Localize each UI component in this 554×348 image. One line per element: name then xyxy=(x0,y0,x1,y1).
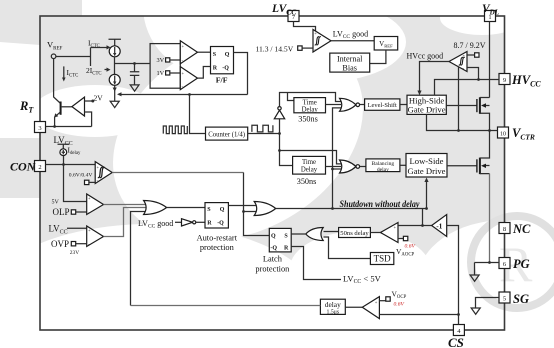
svg-text:+: + xyxy=(314,31,317,36)
junction CON-Idelay xyxy=(62,163,65,166)
transistor M1 high-side MOSFET xyxy=(446,97,489,130)
ground below cap xyxy=(130,85,139,91)
wire AOCP minus to terminal xyxy=(398,238,403,240)
wire shutdown up to NOR gates xyxy=(333,108,342,209)
node 8.7/9.2V terminal xyxy=(475,53,479,57)
wire LVCC to OVP comparator xyxy=(67,227,87,229)
node VREF terminal xyxy=(51,54,56,59)
wire TD1 out xyxy=(326,104,342,106)
svg-text:PG: PG xyxy=(513,257,530,271)
pin 8 NC xyxy=(499,223,510,234)
wire LVCC pin to comparator xyxy=(294,22,316,32)
wire level shift to HS drive xyxy=(400,104,407,106)
comparator AOCP xyxy=(380,223,398,243)
wire shutdown to LS drive with arrow xyxy=(426,181,428,209)
svg-text:8: 8 xyxy=(503,226,506,233)
pin 4 CS xyxy=(453,325,464,336)
comparator osc set 3V xyxy=(180,41,197,64)
svg-text:9: 9 xyxy=(503,77,506,84)
supply rail bar xyxy=(109,39,121,46)
wire shutdown line xyxy=(276,208,427,210)
svg-text:R: R xyxy=(284,245,289,251)
svg-text:0.6V: 0.6V xyxy=(394,302,405,308)
svg-text:3: 3 xyxy=(38,125,41,132)
svg-text:SG: SG xyxy=(513,292,529,306)
wire arrow to ICTC source xyxy=(91,47,107,49)
svg-text:-1: -1 xyxy=(436,222,442,231)
svg-text:HVcc good: HVcc good xyxy=(407,52,444,61)
current source ICTC xyxy=(109,46,120,57)
svg-text:Delay: Delay xyxy=(301,166,318,173)
svg-text:CON: CON xyxy=(10,160,37,174)
wire HVCC net xyxy=(435,80,500,96)
svg-text:Time: Time xyxy=(302,159,316,166)
node OVP terminal xyxy=(71,242,75,246)
wire LS source to PG xyxy=(489,174,491,263)
svg-text:Delay: Delay xyxy=(302,106,319,113)
svg-text:Gate Drive: Gate Drive xyxy=(408,166,446,176)
pin 3 RT xyxy=(35,122,46,133)
OR gate shutdown OR2 xyxy=(254,202,276,216)
wire counter out xyxy=(248,133,280,135)
wire OLP out to OR1 xyxy=(104,204,147,206)
wire TSD to OR input xyxy=(324,237,371,259)
node 3V terminal xyxy=(166,58,170,62)
svg-text:Latch: Latch xyxy=(263,255,283,264)
junction ref-VCTR xyxy=(457,129,460,132)
wire to OR2 lower input xyxy=(244,211,257,213)
wire RT xyxy=(46,126,92,128)
junction tap xyxy=(421,224,424,227)
junction counter node xyxy=(278,132,281,135)
current source 2ICTC xyxy=(109,74,120,85)
low side gate drive box xyxy=(406,154,447,178)
svg-text:OLP: OLP xyxy=(53,207,70,217)
NOR gate low side xyxy=(340,160,360,173)
wire CON down to OLP xyxy=(64,165,87,202)
wire CON xyxy=(46,164,96,166)
pin 9 HVCC xyxy=(499,74,510,85)
wire 3V to comparator xyxy=(170,59,181,61)
junction shutdown branch xyxy=(425,207,428,210)
wire FF Q to feedback and counter xyxy=(234,53,248,95)
wire balancing to LS drive xyxy=(400,164,406,166)
inverter osc phase xyxy=(274,107,284,119)
svg-text:+: + xyxy=(182,44,185,49)
svg-text:Internal: Internal xyxy=(337,55,363,64)
wire Idelay to CON xyxy=(63,156,65,165)
node 11.3/14.5V terminal xyxy=(298,46,302,50)
wire OCP minus to CS xyxy=(379,314,458,316)
pin 2 CON xyxy=(35,161,46,172)
svg-text:2: 2 xyxy=(38,164,41,171)
svg-text:F/F: F/F xyxy=(216,75,228,84)
node VAOCP terminal xyxy=(403,236,407,240)
wire up to inverter xyxy=(279,119,281,134)
wire label to inverter xyxy=(175,221,182,223)
current source Idelay xyxy=(60,149,67,156)
svg-text:1.5μs: 1.5μs xyxy=(326,309,339,315)
wire TD2 out xyxy=(326,166,342,168)
svg-text:protection: protection xyxy=(200,243,235,252)
comparator CON 0.6V/0.4V xyxy=(95,162,112,184)
svg-text:Low-Side: Low-Side xyxy=(410,156,444,166)
wire CON-disable down to latch Q xyxy=(244,173,270,236)
wire VREF to internal bias xyxy=(370,50,386,64)
junction cap tap xyxy=(133,62,136,65)
svg-text:50ns delay: 50ns delay xyxy=(340,230,369,237)
glyph lf square wave xyxy=(252,125,273,132)
wire 50ns to OR input xyxy=(324,231,339,233)
wire NOR1 to level shift xyxy=(360,104,365,106)
wire -1 input from CS xyxy=(447,226,459,325)
svg-text:350ns: 350ns xyxy=(298,114,318,123)
wire OR1 to auto-restart S xyxy=(167,207,205,209)
wire HVcc good output to HS drive xyxy=(420,62,450,93)
wire OR to latch S xyxy=(291,233,307,235)
svg-text:8.7 / 9.2V: 8.7 / 9.2V xyxy=(454,41,486,50)
svg-text:R: R xyxy=(207,221,212,227)
box internal bias xyxy=(330,53,370,72)
svg-text:Bias: Bias xyxy=(342,63,357,72)
svg-text:NC: NC xyxy=(512,222,531,236)
svg-text:1V: 1V xyxy=(157,70,165,77)
comparator LVCC good 11.3/14.5V xyxy=(313,30,331,53)
wire AOCP plus from -1 xyxy=(398,225,432,227)
wire OCP delayed to OR1 xyxy=(131,212,147,306)
inverter LVcc good xyxy=(182,219,196,226)
svg-text:Time: Time xyxy=(303,99,317,106)
OR gate protection OR1 xyxy=(144,201,167,215)
junction minus-HVcc xyxy=(477,78,480,81)
comparator osc reset 1V xyxy=(180,67,197,90)
svg-text:5: 5 xyxy=(503,296,506,303)
junction CS OCP xyxy=(457,313,460,316)
svg-text:-Q: -Q xyxy=(270,245,277,251)
ground SG xyxy=(471,308,480,314)
wire 1V to comparator xyxy=(170,72,181,74)
svg-text:+: + xyxy=(182,71,185,76)
svg-text:LVCC good: LVCC good xyxy=(333,29,368,40)
junction shutdown NOR2 xyxy=(331,168,334,171)
svg-text:2V: 2V xyxy=(94,94,104,103)
transistor M2 low-side MOSFET xyxy=(447,131,490,175)
svg-text:+: + xyxy=(88,196,91,201)
svg-text:-Q: -Q xyxy=(217,221,224,227)
outer border of IC block xyxy=(40,16,505,330)
svg-text:+: + xyxy=(375,299,378,304)
pin 6 PG xyxy=(499,258,510,269)
counter box xyxy=(206,127,248,140)
wire CON comp out xyxy=(112,172,243,174)
OR gate latch set (mirrored) xyxy=(306,228,323,241)
svg-text:LVCC < 5V: LVCC < 5V xyxy=(343,274,382,286)
wire base xyxy=(62,106,72,108)
junction bottom bypass xyxy=(278,149,281,152)
svg-text:Level-Shift: Level-Shift xyxy=(368,102,397,109)
flip-flop auto-restart protection xyxy=(205,203,228,228)
svg-text:R: R xyxy=(213,65,218,71)
junction LS source PG xyxy=(488,261,491,264)
wire bottom bypass xyxy=(280,151,342,164)
flip-flop latch protection xyxy=(269,228,291,252)
svg-text:+: + xyxy=(394,224,397,229)
ground PG xyxy=(470,275,479,281)
box 50ns delay xyxy=(339,228,371,238)
capacitor CT xyxy=(130,64,139,85)
wire set to FF S xyxy=(198,51,211,53)
svg-text:delay: delay xyxy=(325,300,341,309)
svg-text:0.6V: 0.6V xyxy=(405,243,416,249)
comparator OCP xyxy=(362,297,379,319)
wire OCP comp to delay box xyxy=(345,306,362,308)
wire VREF to mirror xyxy=(56,48,91,67)
wire VDL net xyxy=(489,22,491,98)
svg-text:10: 10 xyxy=(500,132,506,138)
svg-text:3V: 3V xyxy=(157,57,165,64)
box delay 1.5us xyxy=(320,299,345,315)
wire Q to OR2 xyxy=(228,205,256,207)
svg-text:-Q: -Q xyxy=(222,65,229,71)
comparator input polarity marks xyxy=(88,31,466,318)
svg-text:350ns: 350ns xyxy=(297,177,317,186)
junction emitter-RT xyxy=(53,125,56,128)
op-amp U1 (2V clamp) xyxy=(72,97,85,116)
svg-text:Q: Q xyxy=(271,233,276,239)
label Ictc down-arrow xyxy=(63,66,65,79)
pin 7 LVCC xyxy=(288,11,299,22)
wire FF Q feedback arrow xyxy=(119,94,248,96)
svg-text:Q: Q xyxy=(220,207,225,213)
junction HS source VCTR xyxy=(488,129,491,132)
wire shutdown tap to -1 output xyxy=(422,209,424,226)
wire mid node xyxy=(115,57,151,74)
pin 5 SG xyxy=(499,292,510,303)
svg-text:TSD: TSD xyxy=(374,254,392,264)
svg-text:5V: 5V xyxy=(52,200,60,206)
balancing delay box xyxy=(366,159,400,173)
wire OVP terminal to comparator xyxy=(76,243,87,245)
wire inverter to top branch xyxy=(280,93,342,107)
comparator OLP xyxy=(87,194,104,215)
junction shutdown line xyxy=(331,207,334,210)
pin 1 VDL xyxy=(485,11,496,22)
svg-text:Auto-restart: Auto-restart xyxy=(197,233,238,242)
junction CON-disable OR2 xyxy=(242,210,245,213)
NOR gate high side xyxy=(340,98,360,111)
wire down to counter xyxy=(190,95,206,134)
svg-text:23V: 23V xyxy=(70,250,79,256)
box TSD xyxy=(370,253,393,265)
svg-text:Shutdown without delay: Shutdown without delay xyxy=(340,199,421,209)
wire LVCC good to VREF box xyxy=(331,40,374,42)
box VREF xyxy=(374,37,398,51)
wire OCP plus to terminal xyxy=(379,300,385,302)
pin 10 VCTR xyxy=(498,127,509,138)
wire reset to FF R xyxy=(198,67,211,79)
wire comparator ref to VCTR xyxy=(458,67,460,131)
supply bar Idelay xyxy=(58,144,70,149)
wire latch R to LVcc<5V xyxy=(291,247,341,280)
node VOCP terminal xyxy=(386,297,390,301)
level shift box xyxy=(365,99,400,110)
wire PG net xyxy=(475,263,500,276)
wire VCTR net xyxy=(427,114,498,130)
svg-text:Gate Drive: Gate Drive xyxy=(408,105,446,115)
high side gate drive box xyxy=(407,95,446,114)
node 0.4V terminal xyxy=(85,180,89,184)
wire OLP terminal to comparator xyxy=(76,211,87,213)
svg-text:+: + xyxy=(97,165,100,170)
ground below 2ICTC xyxy=(110,101,119,107)
wire SG net xyxy=(476,298,500,309)
amplifier -1 xyxy=(432,215,447,237)
wire OVP out to OR1 xyxy=(104,208,147,237)
wire comparator plus to terminal xyxy=(467,54,475,56)
wire arrow to 2ICTC source xyxy=(105,69,107,71)
wire 2ICTC to ground with arrow xyxy=(114,85,116,101)
wire terminal to comparator minus xyxy=(302,47,313,49)
comparator HVcc good xyxy=(449,52,467,72)
wire NOR2 to balancing xyxy=(360,166,366,168)
node 1V terminal xyxy=(166,71,170,75)
wire terminal to comparator xyxy=(89,181,95,183)
svg-text:CS: CS xyxy=(448,335,464,348)
svg-text:Q: Q xyxy=(225,52,230,58)
svg-text:delay: delay xyxy=(377,167,389,173)
wire AOCP out to 50ns delay xyxy=(370,232,380,234)
wire drop to time delay 1 xyxy=(288,93,294,101)
svg-text:0.6V/0.4V: 0.6V/0.4V xyxy=(69,172,93,178)
wire inverter to R xyxy=(196,221,205,223)
svg-text:11.3 / 14.5V: 11.3 / 14.5V xyxy=(256,44,294,53)
svg-text:+: + xyxy=(463,53,466,58)
wire op-amp feedback to RT xyxy=(85,112,92,127)
wire down to bottom branch xyxy=(280,134,293,166)
flip-flop F/F oscillator xyxy=(211,47,234,85)
comparator OVP xyxy=(87,226,104,247)
svg-text:Counter (1/4): Counter (1/4) xyxy=(208,131,245,138)
svg-text:protection: protection xyxy=(255,264,290,273)
glyph hf square wave xyxy=(163,126,187,134)
svg-text:OVP: OVP xyxy=(51,239,69,249)
node OLP terminal xyxy=(71,210,75,214)
wire delay out to OR1 xyxy=(131,305,321,307)
transistor Q1 xyxy=(54,59,61,127)
time delay 2 box xyxy=(293,156,326,174)
node 2V terminal xyxy=(85,100,93,102)
wire osc cap to comparators xyxy=(150,44,180,89)
junction feedback-counter xyxy=(188,93,191,96)
svg-text:+: + xyxy=(88,227,91,232)
time delay 1 box xyxy=(294,98,326,114)
wire comparator minus to HVcc line xyxy=(467,68,479,80)
